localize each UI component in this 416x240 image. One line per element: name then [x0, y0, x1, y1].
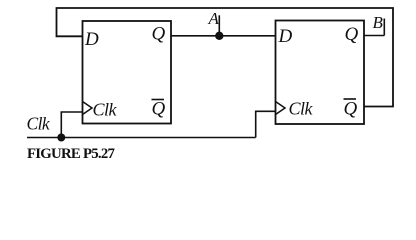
- svg-text:Clk: Clk: [289, 99, 314, 119]
- U2 pin label Q: [345, 24, 359, 45]
- D flip-flop U1: [83, 21, 172, 124]
- svg-text:A: A: [208, 9, 220, 28]
- U1 pin label D: [84, 29, 99, 50]
- svg-text:Q: Q: [152, 24, 166, 45]
- svg-text:D: D: [278, 26, 293, 47]
- node B tick: [383, 19, 385, 36]
- U2 pin label D: [278, 26, 293, 47]
- junction dot on Clk bus: [57, 134, 65, 142]
- label Clk input signal: [27, 114, 51, 134]
- svg-text:Clk: Clk: [93, 100, 118, 120]
- wire: Clk branch to U2 clock input: [256, 111, 276, 137]
- U2 pin label Q-bar: [344, 99, 358, 120]
- svg-text:D: D: [84, 29, 99, 50]
- svg-text:Clk: Clk: [27, 114, 51, 134]
- svg-text:B: B: [373, 13, 384, 32]
- wire: Clk branch to U1 clock input: [61, 112, 82, 138]
- wire: Clk bus along bottom: [27, 137, 256, 139]
- U1 pin label Clk: [93, 100, 118, 120]
- U1 pin label Q: [152, 24, 166, 45]
- svg-text:FIGURE P5.27: FIGURE P5.27: [27, 146, 116, 162]
- svg-text:Q: Q: [345, 24, 359, 45]
- U2 pin label Clk: [289, 99, 314, 119]
- U2 clock triangle: [276, 102, 286, 115]
- node A junction dot: [215, 32, 223, 40]
- wire: U2 Q output stub to B: [364, 35, 384, 37]
- svg-text:Q: Q: [344, 99, 358, 120]
- node A label: [208, 9, 220, 28]
- node A tick: [218, 15, 220, 36]
- U1 pin label Q-bar: [152, 99, 166, 120]
- U1 clock triangle: [83, 102, 93, 115]
- caption FIGURE P5.27: [27, 146, 116, 162]
- wire: U1 Q to U2 D: [171, 35, 276, 37]
- D flip-flop U2: [276, 21, 365, 125]
- wire: feedback from U2 Q-bar up over the top down to U1 D: [57, 8, 394, 107]
- node B label: [373, 13, 384, 32]
- svg-text:Q: Q: [152, 99, 166, 120]
